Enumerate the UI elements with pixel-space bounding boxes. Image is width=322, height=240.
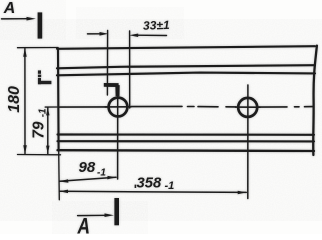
- section cut bar bottom: [114, 198, 119, 225]
- dim 79 top arrow: [46, 107, 49, 115]
- rail upper profile line 2: [57, 73, 315, 76]
- dim 358 line: [60, 191, 247, 192]
- surface-mark flag symbol left of rail: [38, 70, 52, 84]
- svg-text:79: 79: [31, 121, 48, 139]
- svg-text:33±1: 33±1: [143, 18, 170, 33]
- dim 33 extension line right: [129, 31, 131, 108]
- dim 33 left arrow: [88, 33, 102, 35]
- dim 180 bottom extension tick: [18, 154, 61, 156]
- hole 1 vertical centerline: [117, 96, 119, 179]
- svg-text:98: 98: [79, 159, 96, 176]
- rail upper profile line 1: [57, 65, 315, 68]
- rail bottom edge: [58, 149, 315, 152]
- svg-text:A: A: [3, 0, 16, 17]
- hole 2 vertical centerline: [247, 85, 249, 199]
- dim 180 top extension tick: [18, 47, 59, 49]
- scan noise band around drawing: [0, 36, 322, 204]
- rail top edge: [57, 46, 315, 49]
- hole 2 (right): [238, 98, 257, 117]
- dim 180 line: [24, 49, 26, 154]
- hole 1 (left), d33: [109, 98, 128, 117]
- dim 98 line: [60, 177, 117, 181]
- dim 98 right arrow: [107, 176, 116, 180]
- rail right end edge: [313, 46, 317, 155]
- svg-text:180: 180: [6, 86, 23, 113]
- dim 79-1 line: [47, 108, 49, 154]
- dim 358 left arrow: [59, 190, 68, 194]
- svg-text:358: 358: [137, 176, 162, 192]
- dim 180 bottom arrow: [23, 145, 27, 154]
- dim 79 top extension tick: [45, 106, 59, 108]
- rail left end edge: [57, 49, 60, 151]
- svg-text:-1: -1: [165, 180, 175, 192]
- dim 33 extension line left: [106, 31, 108, 96]
- dim 33 right arrow/leader: [137, 34, 167, 36]
- rail centerline (dash-dot): [60, 105, 313, 108]
- dim 180 top arrow: [23, 48, 27, 57]
- dim 98 left arrow: [59, 179, 68, 183]
- section arrow top: [2, 18, 29, 20]
- weld/mark hook above hole 1: [104, 83, 120, 96]
- extension line below left end: [58, 151, 61, 200]
- stray ink speck left of 358 text: [135, 185, 137, 188]
- dim 358 right arrow: [238, 191, 247, 195]
- rail lower profile line 2: [58, 140, 315, 142]
- dim 79 bottom arrow: [46, 146, 49, 155]
- svg-text:A: A: [77, 213, 90, 234]
- rail lower profile line 1: [58, 133, 315, 135]
- section cut bar top: [38, 12, 43, 38]
- svg-text:-1: -1: [97, 168, 106, 179]
- section arrow bottom: [78, 214, 107, 216]
- svg-text:-1: -1: [38, 108, 49, 117]
